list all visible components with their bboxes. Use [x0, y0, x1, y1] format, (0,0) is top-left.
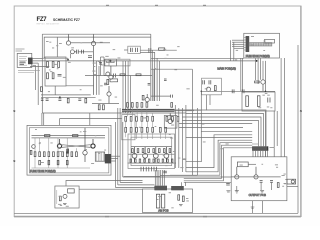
resistor R603	[182, 196, 184, 201]
wire into box p2	[232, 41, 244, 43]
capacitor C210	[164, 79, 167, 81]
label under connector row2	[18, 72, 34, 74]
ground G401	[235, 186, 239, 193]
frame bottom heavier line	[14, 216, 301, 218]
capacitor C601 above	[163, 171, 167, 173]
resistor R101 vertical	[41, 87, 43, 92]
connector CN602 hatched	[171, 186, 184, 190]
capacitor C121 plates	[99, 62, 102, 64]
cluster column wires mid	[126, 121, 153, 127]
connector pins down b	[257, 151, 259, 157]
label specks block corner	[46, 41, 62, 48]
capacitor C602 electrolytic	[156, 194, 159, 208]
wire into box p3	[232, 43, 244, 45]
ground hatch below output box	[251, 207, 255, 208]
component column row2	[39, 160, 68, 164]
bus band white separator	[122, 109, 175, 111]
transistor Q112	[145, 94, 149, 102]
feature box U101	[105, 59, 117, 66]
output stage upper resistor row	[127, 103, 173, 108]
staircase wire s5 h	[179, 123, 252, 125]
wire y127.4	[179, 126, 243, 128]
wire y52.4 short	[140, 51, 155, 53]
power supply small box	[55, 186, 79, 208]
resistor row3	[125, 127, 167, 132]
pot box VR101	[110, 79, 118, 82]
wire bundle into CN601 e	[162, 170, 164, 186]
capacitor cluster box	[128, 46, 141, 53]
driver box inner	[131, 137, 172, 165]
cluster bias rail	[131, 146, 172, 148]
wire above box x41.9	[41, 113, 43, 125]
wire into box p5	[234, 47, 244, 49]
resistor R108	[52, 73, 54, 79]
wire cap cluster left	[124, 49, 128, 51]
transistor Q500	[32, 145, 36, 149]
connector CN602 hatch lines	[173, 186, 183, 190]
wire x130 down	[130, 76, 132, 114]
svg-text:FUNCTION PCB(2/2): FUNCTION PCB(2/2)	[246, 55, 270, 58]
sub circuit box U201	[202, 78, 222, 95]
wire vert x240.8	[240, 58, 242, 91]
wire C103 to right	[78, 51, 93, 53]
wire bundle into CN601 b	[156, 170, 158, 186]
output pcb box	[231, 157, 287, 201]
connector CN101 body blob	[28, 58, 33, 65]
bias network box	[45, 57, 66, 86]
node dot rail b	[265, 91, 267, 93]
connector pins down f	[252, 151, 254, 157]
rail y118.6	[60, 118, 122, 120]
power rail branch v2	[257, 58, 259, 84]
staircase left s1	[116, 187, 155, 189]
transistor Q201	[261, 80, 265, 92]
wire bundle into CN601 c	[158, 170, 160, 186]
wire vert x230.6	[230, 40, 232, 61]
wire above box x43.7	[43, 113, 45, 125]
transistor Q501	[57, 139, 61, 148]
left vertical bundle v1	[115, 122, 117, 188]
wire bias top y58.2	[42, 57, 68, 59]
wire vert x284.4	[283, 58, 285, 157]
wire vert x281	[280, 58, 282, 157]
frame right heavier line	[300, 6, 302, 217]
wire jack b	[286, 181, 288, 183]
main block inner double edge	[44, 37, 151, 58]
left vertical bundle v2	[117, 108, 119, 185]
node dot x256	[256, 60, 258, 62]
wire x104	[103, 57, 105, 76]
staircase left s3	[120, 181, 142, 183]
nested corner n3	[186, 140, 252, 172]
capacitor C109	[82, 50, 84, 54]
small board rect	[265, 39, 275, 43]
wire U201 down a	[206, 95, 208, 110]
nested corner n4	[170, 143, 252, 176]
nested corner n6	[184, 148, 252, 181]
capacitor C103	[77, 50, 79, 54]
rail y91.3	[201, 90, 275, 92]
gray band y163	[127, 162, 176, 164]
staircase wire s1 h	[186, 110, 266, 146]
staircase left s4	[123, 176, 231, 178]
transistor Q601	[63, 194, 67, 198]
main pcb right edge	[191, 69, 193, 175]
wire bundle v4	[159, 61, 161, 101]
border frame	[14, 6, 301, 217]
resistor R502 horizontal	[73, 135, 78, 137]
svg-text:FUNCTION PCB(1/2): FUNCTION PCB(1/2)	[30, 169, 56, 173]
capacitor C204 electrolytic	[246, 96, 249, 107]
tick marks top border	[106, 4, 206, 6]
svg-text:OUTPUT PCB: OUTPUT PCB	[249, 193, 266, 197]
connector CN601 hatched	[155, 186, 168, 191]
capacitor C207	[203, 80, 205, 84]
resistor row2 r1	[125, 116, 154, 121]
main block left edge	[41, 34, 43, 113]
connector CN601 hatch lines	[156, 186, 166, 191]
wire stub x57.3	[56, 37, 58, 57]
wire vert x242.5	[242, 58, 244, 92]
ground G602	[179, 205, 183, 206]
connector CN301 hatch lines	[254, 146, 266, 151]
wire top hat y57	[101, 56, 105, 58]
capacitor C117	[78, 99, 81, 101]
left vertical bundle v4	[122, 122, 124, 177]
left vertical bundle v3	[119, 108, 121, 182]
staircase wire s4 h	[182, 121, 258, 147]
wire bias box right to Q103	[66, 85, 94, 87]
capacitor C125	[130, 48, 132, 52]
node junction dot input	[109, 60, 111, 62]
power filter box	[242, 92, 275, 111]
svg-text:SCHEMATIC FZ7: SCHEMATIC FZ7	[53, 18, 80, 22]
transistor Q301	[132, 147, 137, 163]
connector CN202 vertical bar	[246, 36, 250, 52]
connector CN301 hatched	[252, 146, 268, 151]
wire pin3	[33, 62, 39, 64]
resistor R104	[47, 62, 49, 68]
comp row right extras	[166, 116, 179, 121]
nested corner n2	[186, 135, 252, 168]
transistor Q305	[168, 113, 172, 123]
inner rail y135.6	[32, 135, 106, 137]
wire bundle into CN601 d	[160, 170, 162, 186]
am pcb box	[143, 189, 193, 213]
wire q102 node drop	[67, 58, 69, 61]
wire x201.3 up	[200, 91, 202, 131]
resistor R601	[59, 196, 61, 201]
wire pin2 input rail	[33, 60, 111, 62]
diode D401 left edge	[226, 183, 230, 185]
cluster bottom connector row	[141, 167, 157, 172]
wire C401 down	[260, 182, 262, 190]
power rail branch v1	[255, 58, 257, 80]
regulator box	[68, 189, 75, 193]
capacitor C115	[58, 99, 61, 101]
nested corner n5	[184, 145, 252, 178]
component column connection wires	[32, 138, 91, 168]
wire cap cluster right junction	[149, 48, 151, 53]
capacitor C205 electrolytic	[257, 96, 260, 107]
wire vertical from pin4	[34, 65, 36, 90]
capacitor C113	[104, 83, 107, 85]
wire above box x89.8	[89, 113, 91, 125]
main block step vertical x150.8	[150, 34, 152, 101]
resistor R401	[277, 183, 279, 188]
rail y58.3 to function connector	[151, 57, 244, 59]
rail y113	[42, 112, 186, 114]
wire CN602 vert b	[181, 182, 183, 186]
staircase wire s2 h	[186, 114, 264, 147]
wire pin1	[33, 57, 43, 59]
connector CN101 pin rows text marks	[19, 56, 27, 65]
ground G601	[63, 203, 67, 204]
bus band right extension	[175, 109, 195, 111]
wire into box p1	[232, 39, 244, 41]
bus lower y97.3	[41, 96, 96, 98]
transistor Q202	[206, 87, 210, 91]
wire bias box bottom down	[54, 86, 56, 95]
wire CN602 right c	[184, 181, 231, 183]
label CN301	[270, 147, 275, 149]
wire bundle v1	[151, 50, 153, 101]
wire cross a	[62, 145, 91, 148]
wire right column b	[125, 61, 127, 113]
diode D203	[242, 89, 244, 93]
wire y137.5 long	[186, 137, 252, 139]
wire pin4	[33, 64, 36, 66]
power rail branch v4	[262, 61, 264, 80]
transistor Q303	[153, 147, 158, 163]
ground G402	[260, 191, 264, 193]
resistor R116	[67, 98, 69, 103]
resistor R111	[107, 61, 115, 63]
cluster column wires lower	[126, 132, 166, 139]
cluster emitter rail	[128, 153, 175, 155]
transistor Q105	[107, 86, 111, 104]
connector CN202 pin stubs	[244, 38, 246, 51]
wire vert x298 long	[297, 45, 299, 213]
staircase left s2	[118, 184, 155, 186]
capacitor C510 dark blob	[66, 149, 69, 154]
wire right column a	[122, 61, 124, 113]
wire y103.5	[92, 103, 119, 105]
resistor R201	[255, 81, 260, 83]
resistor R105	[52, 62, 54, 68]
sub box top right	[109, 59, 130, 66]
wire above box x59.5	[59, 119, 61, 126]
staircase wire s3 h	[182, 117, 261, 146]
wire U201 down b	[209, 95, 211, 105]
diode D206	[268, 98, 270, 103]
main block inner top edge y69	[151, 68, 193, 70]
diode D202	[232, 89, 234, 93]
wire vert x265.5 lower	[265, 111, 267, 157]
svg-text:MAIN PCB(1/2): MAIN PCB(1/2)	[217, 66, 236, 70]
wire exit right c	[111, 160, 116, 162]
svg-text:REF NO. SM 0049 FZ7: REF NO. SM 0049 FZ7	[37, 24, 61, 26]
resistor R118	[85, 98, 87, 103]
capacitor C116	[148, 83, 151, 85]
transistor Q502	[91, 139, 95, 148]
component value labels (illegible speck text)	[35, 36, 286, 208]
wire relay out	[248, 163, 256, 165]
resistor R106	[58, 62, 60, 68]
resistor R122	[120, 74, 125, 76]
wire y50.2 to right	[140, 49, 177, 51]
nested corner n1	[186, 131, 252, 161]
main pcb bottom right vertical	[197, 108, 199, 175]
node dot rail a	[201, 91, 203, 93]
wire output to right rail	[287, 186, 298, 188]
wire right column c	[127, 61, 129, 113]
power rail branch v3	[260, 58, 262, 79]
connector CN502 hatch	[95, 152, 104, 161]
capacitor C114	[46, 99, 49, 101]
cluster right verticals d	[185, 105, 187, 172]
wire CN602 vert a	[185, 182, 187, 186]
capacitor C401	[260, 181, 263, 183]
main block top edge	[42, 33, 151, 35]
transistor Q401	[235, 167, 239, 179]
label small box text	[56, 190, 58, 204]
connector pins down c	[259, 151, 261, 157]
transistor Q101	[66, 35, 110, 46]
wire C402 down	[271, 182, 273, 190]
driver box outer	[128, 134, 175, 169]
cluster right verticals b	[178, 108, 180, 168]
main block inner left edge x154	[153, 69, 155, 101]
rail y176.9	[231, 176, 281, 178]
transistor sub box top	[164, 116, 177, 129]
ground G403 outside	[226, 191, 230, 192]
left sub box	[122, 115, 135, 140]
wire x96.5 down	[96, 61, 98, 95]
diode D111	[114, 74, 116, 78]
connector CN502 body blob	[105, 154, 111, 163]
wire small box out right	[79, 188, 143, 190]
connector CN101 box	[17, 53, 32, 67]
rail y60.9 continuation	[110, 60, 256, 62]
diode D310	[171, 95, 173, 98]
wire bundle into CN601 f	[163, 170, 165, 186]
transistor Q104	[109, 66, 113, 79]
transistor Q302	[143, 147, 148, 163]
tick marks left border	[13, 111, 15, 162]
cluster right verticals a	[174, 105, 176, 168]
bottom bus	[14, 212, 298, 214]
wire jack a	[285, 179, 287, 181]
capacitor C110	[88, 56, 92, 58]
resistor R501 horizontal	[45, 135, 50, 137]
capacitor C119	[41, 99, 44, 101]
capacitor C126	[136, 48, 138, 52]
resistor R203	[214, 86, 216, 91]
main pcb bottom edge	[160, 174, 198, 176]
wire y176.5	[124, 176, 160, 178]
capacitor C603 electrolytic	[161, 194, 164, 208]
inner rail y137.9	[32, 137, 106, 139]
wire vert x233.8	[233, 42, 235, 61]
capacitor C108	[58, 74, 62, 76]
label input jack text	[16, 49, 25, 52]
wire bundle into CN601 a	[154, 170, 156, 186]
function pcb 1/2 outer box	[27, 125, 111, 175]
wire output box to bus b	[262, 201, 264, 214]
rail y75.5	[85, 75, 152, 77]
wire bundle v2	[154, 52, 156, 101]
transistor Q102	[70, 50, 76, 54]
connector pins down e	[264, 151, 266, 157]
ribbon cable hatched	[249, 43, 272, 46]
function pcb 2/2 box	[244, 33, 280, 58]
wire vert x277	[276, 111, 278, 146]
wire y96 stub	[151, 95, 171, 97]
wire y180.5 into am	[66, 181, 143, 187]
bus upper y94.9	[41, 94, 91, 96]
resistor R114	[103, 105, 105, 110]
resistor R113	[98, 105, 100, 110]
wire exit right a	[111, 155, 120, 157]
bus band thin tail	[194, 109, 202, 111]
wire into box p4	[232, 45, 244, 47]
wire mid horizontal y66.5	[30, 66, 49, 68]
resistor R504	[30, 150, 32, 154]
tick marks bottom border	[105, 216, 207, 218]
node dot bias	[67, 59, 69, 61]
transistor Q503	[83, 128, 87, 162]
capacitor C208	[209, 80, 211, 84]
connector CN101 label rows	[20, 62, 26, 66]
tick marks right border	[300, 110, 302, 113]
emitter resistor row	[132, 149, 171, 153]
svg-text:AM PCB: AM PCB	[158, 209, 169, 213]
cluster column wires upper	[128, 107, 153, 116]
wire bundle v3	[156, 58, 158, 101]
transistor Q304	[164, 147, 169, 163]
resistor R131 horizontal	[159, 48, 165, 50]
label CN301 row2	[252, 143, 258, 145]
transistor Q110	[104, 72, 110, 76]
transistor Q103	[91, 35, 95, 95]
bottom comp row	[130, 159, 173, 162]
component column row	[34, 152, 77, 157]
wire output box to bus a	[252, 201, 254, 214]
connector pins down g	[267, 151, 269, 157]
resistor R602	[178, 195, 180, 200]
node dot bus	[59, 96, 61, 98]
connector pins down d	[262, 151, 264, 157]
jack J401	[287, 179, 296, 184]
power rail branch v5	[265, 61, 267, 91]
cluster right verticals c	[181, 108, 183, 172]
connector CN502 hatch fill	[97, 152, 103, 161]
relay box K401	[237, 162, 248, 167]
resistor R124	[142, 95, 144, 100]
bus band dark bar	[122, 109, 175, 112]
wire x99 down	[98, 66, 100, 95]
function pcb 1/2 inner box	[29, 128, 108, 173]
wire vertical from pin3	[37, 63, 39, 105]
capacitor C121 vertical pair	[100, 57, 102, 76]
wire vert x274.2	[273, 111, 275, 157]
label under connector	[18, 69, 40, 71]
connector pins down a	[254, 151, 256, 157]
resistor R112	[107, 79, 109, 84]
resistor R107	[47, 73, 49, 79]
resistor R123	[136, 74, 141, 76]
